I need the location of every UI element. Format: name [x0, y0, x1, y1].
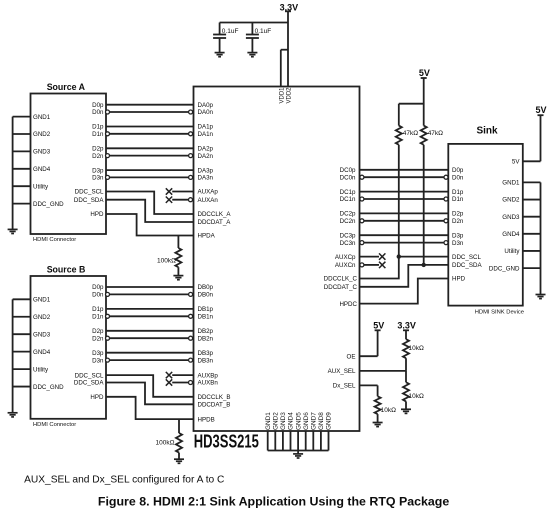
wire D0p-DA0p	[92, 102, 213, 109]
pin label HPDC	[339, 301, 357, 308]
Source B pin HPD label	[90, 394, 104, 401]
ground R7	[373, 423, 383, 427]
svg-text:D2p: D2p	[92, 146, 104, 153]
resistor R3 47k DDC_SCL pullup	[396, 126, 418, 145]
svg-text:AUXCp: AUXCp	[335, 254, 356, 261]
wire D1p-DB1p	[92, 306, 213, 313]
ground R1	[173, 276, 183, 280]
svg-text:D0n: D0n	[92, 292, 104, 299]
wire D0p-DB0p	[92, 284, 213, 291]
capacitor C2 0.1uF	[246, 23, 271, 53]
no-connect AUXCn	[360, 262, 386, 268]
svg-text:DDC_GND: DDC_GND	[33, 384, 64, 391]
wire DDC_SCL B to DDCCLK_B	[106, 375, 194, 397]
pin label HPDB	[198, 416, 215, 423]
svg-text:Figure 8. HDMI 2:1 Sink Appli: Figure 8. HDMI 2:1 Sink Application Usin…	[98, 495, 449, 509]
wire D2n-DA2n	[92, 153, 213, 160]
svg-text:DDC_SDA: DDC_SDA	[452, 262, 482, 269]
svg-text:D2n: D2n	[92, 153, 104, 160]
ground R2	[174, 459, 184, 463]
wire HPDC to sink HPD	[360, 279, 449, 304]
svg-text:D3p: D3p	[452, 232, 464, 239]
wire DC1n-D1n	[340, 196, 464, 203]
connector J3 caption HDMI SINK Device	[475, 310, 524, 316]
Sink pin Utility	[504, 248, 540, 255]
svg-text:GND2: GND2	[273, 412, 280, 430]
Source A pin GND1	[13, 114, 51, 121]
pin label Dx_SEL	[333, 383, 356, 390]
resistor R4 47k DDC_SDA pullup	[421, 126, 443, 145]
wire R4 to junction	[423, 145, 425, 265]
chip pin GND5	[295, 412, 302, 451]
connector J2 Source B body	[31, 276, 107, 419]
svg-text:D1n: D1n	[452, 196, 464, 203]
wire HPD A to HPDA	[106, 214, 194, 236]
wire HPD B to HPDB	[106, 397, 194, 419]
Source B pin GND4	[13, 349, 51, 356]
svg-text:DC2n: DC2n	[340, 218, 356, 225]
svg-text:GND3: GND3	[33, 331, 51, 338]
svg-text:GND5: GND5	[295, 412, 302, 430]
ground Source A	[8, 229, 18, 233]
pin label DDCCLK_A	[198, 211, 232, 218]
pin label DDCDAT_C	[324, 284, 358, 291]
svg-text:GND1: GND1	[33, 114, 51, 121]
svg-text:VDD1: VDD1	[279, 87, 285, 104]
wire D0n-DB0n	[92, 292, 213, 299]
Sink pin 5V	[512, 159, 541, 166]
Source B pin Utility	[13, 366, 49, 373]
wire DDCCLK_C to sink DDC_SCL	[360, 257, 449, 279]
svg-text:GND1: GND1	[502, 180, 520, 187]
svg-text:5V: 5V	[419, 68, 430, 78]
junction DDC_SCL net	[397, 254, 401, 258]
wire D0n-DA0n	[92, 109, 213, 116]
wire DC0n-D0n	[340, 174, 464, 181]
Source B pin DDC_SDA label	[74, 380, 104, 387]
svg-text:DA3n: DA3n	[198, 175, 214, 182]
chip ground bus	[268, 450, 329, 452]
wire 47k tee	[399, 104, 424, 126]
svg-text:DA3p: DA3p	[198, 167, 214, 174]
svg-text:AUXAp: AUXAp	[198, 189, 219, 196]
svg-text:GND2: GND2	[33, 314, 51, 321]
pin label VDD2	[286, 87, 292, 104]
svg-text:HPD: HPD	[452, 276, 466, 283]
wire Dx_SEL	[360, 385, 378, 396]
wire AUX_SEL	[360, 370, 407, 372]
chip pin GND1	[265, 412, 272, 451]
svg-text:D0n: D0n	[452, 174, 464, 181]
Sink pin GND2	[502, 197, 540, 204]
wire 5V vertical	[421, 78, 427, 126]
wire D2p-DA2p	[92, 146, 213, 153]
svg-text:DA0p: DA0p	[198, 102, 214, 109]
svg-text:Sink: Sink	[476, 126, 498, 137]
ground chip	[293, 451, 303, 459]
svg-text:5V: 5V	[373, 320, 384, 330]
svg-text:VDD2: VDD2	[286, 87, 292, 104]
svg-text:Source B: Source B	[47, 265, 86, 275]
svg-text:AUXCn: AUXCn	[335, 262, 356, 269]
wire VDD1 branch	[281, 50, 288, 87]
Source A pin HPD label	[90, 211, 104, 218]
svg-text:HD3SS215: HD3SS215	[194, 432, 259, 452]
junction DDC_SDA net	[422, 263, 426, 267]
svg-text:Source A: Source A	[47, 82, 86, 92]
svg-text:DA2n: DA2n	[198, 153, 214, 160]
svg-text:Utility: Utility	[33, 183, 49, 190]
svg-text:AUX_SEL: AUX_SEL	[328, 368, 356, 375]
Sink pin DDC_GND	[489, 265, 541, 272]
svg-text:GND8: GND8	[318, 412, 325, 430]
Source B pin DDC_GND	[13, 384, 65, 391]
connector J3 Sink title	[476, 126, 498, 137]
pin label VDD1	[279, 87, 285, 104]
wire D3n-DB3n	[92, 357, 213, 364]
svg-text:D3p: D3p	[92, 167, 104, 174]
Source A ground bus	[12, 117, 14, 230]
svg-text:DB0p: DB0p	[198, 284, 214, 291]
svg-text:GND2: GND2	[33, 131, 51, 138]
pin label DDCDAT_B	[198, 402, 231, 409]
svg-text:DB3p: DB3p	[198, 350, 214, 357]
svg-text:DB1n: DB1n	[198, 314, 214, 321]
svg-text:DC1n: DC1n	[340, 196, 356, 203]
connector J2 Source B title	[47, 265, 86, 275]
wire D1n-DA1n	[92, 131, 213, 138]
svg-text:D3n: D3n	[92, 175, 104, 182]
svg-text:D0p: D0p	[452, 167, 464, 174]
svg-text:HDMI Connector: HDMI Connector	[33, 422, 76, 428]
power 5V OE label	[373, 320, 384, 330]
caption note	[24, 475, 224, 486]
svg-text:DA1p: DA1p	[198, 124, 214, 131]
svg-text:DDCCLK_C: DDCCLK_C	[324, 276, 358, 283]
wire DC1p-D1p	[340, 189, 464, 196]
svg-text:100kΩ: 100kΩ	[156, 440, 175, 447]
ground R6	[401, 409, 411, 413]
svg-text:Dx_SEL: Dx_SEL	[333, 383, 356, 390]
svg-text:HDMI Connector: HDMI Connector	[33, 237, 76, 243]
svg-text:DDC_SCL: DDC_SCL	[75, 372, 104, 379]
svg-text:DDCDAT_A: DDCDAT_A	[198, 219, 232, 226]
svg-text:DA1n: DA1n	[198, 131, 214, 138]
svg-text:DB1p: DB1p	[198, 306, 214, 313]
Source A pin GND3	[13, 149, 51, 156]
svg-text:DC1p: DC1p	[340, 189, 356, 196]
svg-text:D1n: D1n	[92, 314, 104, 321]
svg-text:DDCDAT_C: DDCDAT_C	[324, 284, 358, 291]
resistor R7 10k Dx_SEL pulldown	[375, 396, 396, 422]
svg-text:DDC_SCL: DDC_SCL	[75, 189, 104, 196]
svg-text:DC3n: DC3n	[340, 240, 356, 247]
svg-text:DB3n: DB3n	[198, 357, 214, 364]
chip pin GND3	[280, 412, 287, 451]
wire DDC_SDA B to DDCDAT_B	[106, 383, 194, 405]
svg-text:GND3: GND3	[280, 412, 287, 430]
svg-text:DDC_SDA: DDC_SDA	[74, 380, 104, 387]
svg-text:HPDB: HPDB	[198, 416, 215, 423]
svg-text:D0n: D0n	[92, 109, 104, 116]
svg-text:HPDC: HPDC	[339, 301, 357, 308]
svg-text:AUXBn: AUXBn	[198, 380, 219, 387]
svg-text:DC0n: DC0n	[340, 174, 356, 181]
sink pin label HPD	[452, 276, 466, 283]
pin label OE	[347, 353, 356, 360]
svg-text:0.1uF: 0.1uF	[255, 28, 272, 35]
svg-text:D3p: D3p	[92, 350, 104, 357]
svg-text:Utility: Utility	[33, 366, 49, 373]
svg-text:DC0p: DC0p	[340, 167, 356, 174]
connector J1 Source A title	[47, 82, 86, 92]
svg-text:47kΩ: 47kΩ	[403, 130, 418, 137]
wire DC3n-D3n	[340, 240, 464, 247]
wire 3.3V vertical to VDD2	[285, 11, 291, 86]
IC U1 HD3SS215 body	[194, 87, 360, 432]
chip pin GND9	[326, 412, 333, 451]
svg-text:D3n: D3n	[92, 357, 104, 364]
wire DC3p-D3p	[340, 232, 464, 239]
Source B pin GND1	[13, 297, 51, 304]
svg-text:GND3: GND3	[33, 149, 51, 156]
Source B pin DDC_SCL label	[75, 372, 104, 379]
svg-text:DDC_GND: DDC_GND	[33, 201, 64, 208]
Sink pin GND1	[502, 180, 540, 187]
svg-text:DC2p: DC2p	[340, 211, 356, 218]
wire R3 to junction	[398, 145, 400, 257]
chip pin GND4	[288, 412, 295, 451]
Source B pin GND3	[13, 331, 51, 338]
svg-text:GND2: GND2	[502, 197, 520, 204]
Sink pin GND3	[502, 214, 540, 221]
Sink ground bus	[540, 182, 542, 294]
no-connect AUXCp	[360, 253, 386, 259]
svg-text:5V: 5V	[512, 159, 520, 166]
Sink pin GND4	[502, 231, 540, 238]
connector J3 Sink body	[448, 144, 523, 306]
svg-text:D2n: D2n	[452, 218, 464, 225]
Source B pin GND2	[13, 314, 51, 321]
resistor R6 10k AUX_SEL pulldown	[403, 371, 424, 409]
ground for C2	[247, 53, 257, 57]
svg-text:HDMI SINK Device: HDMI SINK Device	[475, 310, 524, 316]
wire D2n-DB2n	[92, 335, 213, 342]
no-connect AUXAp	[166, 188, 219, 195]
wire DC0p-D0p	[340, 167, 464, 174]
svg-text:GND1: GND1	[265, 412, 272, 430]
svg-text:DDCCLK_B: DDCCLK_B	[198, 394, 231, 401]
pin label DDCDAT_A	[198, 219, 232, 226]
resistor R1 100k HPDA pulldown	[157, 236, 181, 276]
pin label DC AUXCp	[335, 254, 356, 261]
svg-text:AUX_SEL and Dx_SEL configured: AUX_SEL and Dx_SEL configured for A to C	[24, 475, 224, 486]
svg-text:GND1: GND1	[33, 297, 51, 304]
svg-text:DDC_GND: DDC_GND	[489, 265, 520, 272]
svg-text:GND4: GND4	[288, 412, 295, 430]
ground Source B	[8, 413, 18, 417]
svg-text:DDC_SCL: DDC_SCL	[452, 254, 481, 261]
svg-text:HPD: HPD	[90, 394, 104, 401]
svg-text:D1p: D1p	[92, 124, 104, 131]
wire D3p-DB3p	[92, 350, 213, 357]
no-connect AUXBn	[166, 379, 219, 386]
svg-text:D0p: D0p	[92, 102, 104, 109]
Source A pin DDC_SDA label	[74, 197, 104, 204]
wire DDCDAT_C to sink DDC_SDA	[360, 265, 449, 287]
wire DDC_SCL A to DDCCLK_A	[106, 192, 194, 215]
svg-text:DC3p: DC3p	[340, 232, 356, 239]
svg-text:AUXAn: AUXAn	[198, 197, 219, 204]
svg-text:10kΩ: 10kΩ	[381, 407, 396, 414]
capacitor C1 0.1uF	[213, 23, 238, 53]
pin label DDCCLK_C	[324, 276, 358, 283]
svg-text:100kΩ: 100kΩ	[157, 258, 176, 265]
svg-text:GND4: GND4	[33, 349, 51, 356]
connector J1 Source A body	[31, 94, 107, 235]
pin label HPDA	[198, 233, 216, 240]
sink pin label DDC_SDA	[452, 262, 482, 269]
power 3.3V AUX label	[397, 320, 416, 330]
svg-text:GND6: GND6	[303, 412, 310, 430]
svg-text:D2p: D2p	[452, 211, 464, 218]
svg-text:DB2p: DB2p	[198, 328, 214, 335]
svg-text:3.3V: 3.3V	[397, 320, 416, 330]
svg-text:OE: OE	[347, 353, 356, 360]
power 5V rail label	[419, 68, 430, 78]
svg-text:GND4: GND4	[33, 166, 51, 173]
pin label AUX_SEL	[328, 368, 356, 375]
sink pin label DDC_SCL	[452, 254, 481, 261]
svg-text:HPDA: HPDA	[198, 233, 216, 240]
no-connect AUXAn	[166, 197, 219, 204]
svg-text:DDC_SDA: DDC_SDA	[74, 197, 104, 204]
wire DC2n-D2n	[340, 218, 464, 225]
svg-text:DA2p: DA2p	[198, 146, 214, 153]
wire D1p-DA1p	[92, 124, 213, 131]
svg-text:DDCDAT_B: DDCDAT_B	[198, 402, 231, 409]
pin label DC AUXCn	[335, 262, 356, 269]
resistor R5 10k AUX_SEL pullup	[403, 330, 424, 371]
resistor R2 100k HPDB pulldown	[156, 419, 182, 459]
ground Sink	[536, 295, 546, 299]
svg-text:D1p: D1p	[452, 189, 464, 196]
svg-text:GND7: GND7	[311, 412, 318, 430]
chip pin GND2	[273, 412, 280, 451]
svg-text:Utility: Utility	[504, 248, 520, 255]
Source A pin DDC_SCL label	[75, 189, 104, 196]
wire decoupling rail	[220, 22, 288, 24]
pin label DDCCLK_B	[198, 394, 231, 401]
svg-text:10kΩ: 10kΩ	[409, 345, 424, 352]
wire D1n-DB1n	[92, 314, 213, 321]
Source A pin Utility	[13, 183, 49, 190]
svg-text:AUXBp: AUXBp	[198, 372, 219, 379]
no-connect AUXBp	[166, 372, 219, 379]
svg-text:GND4: GND4	[502, 231, 520, 238]
svg-text:DB0n: DB0n	[198, 292, 214, 299]
svg-text:DB2n: DB2n	[198, 335, 214, 342]
svg-text:HPD: HPD	[90, 211, 104, 218]
chip pin GND7	[311, 412, 318, 451]
svg-text:D2p: D2p	[92, 328, 104, 335]
IC U1 label HD3SS215	[194, 432, 259, 452]
svg-text:DA0n: DA0n	[198, 109, 214, 116]
wire DC2p-D2p	[340, 211, 464, 218]
connector J1 caption HDMI Connector	[33, 237, 76, 243]
svg-text:47kΩ: 47kΩ	[428, 130, 443, 137]
svg-text:GND9: GND9	[326, 412, 333, 430]
Source A pin GND2	[13, 131, 51, 138]
svg-text:0.1uF: 0.1uF	[222, 28, 239, 35]
power 5V sink label	[535, 105, 546, 115]
svg-text:D2n: D2n	[92, 335, 104, 342]
ground for C1	[215, 53, 225, 57]
chip pin GND6	[303, 412, 310, 451]
wire D3n-DA3n	[92, 175, 213, 182]
svg-text:10kΩ: 10kΩ	[409, 393, 424, 400]
wire OE to 5V	[360, 330, 381, 356]
wire D2p-DB2p	[92, 328, 213, 335]
wire DDC_SDA A to DDCDAT_A	[106, 200, 194, 222]
caption figure title	[98, 495, 449, 509]
connector J2 caption HDMI Connector	[33, 422, 76, 428]
Source A pin GND4	[13, 166, 51, 173]
svg-text:5V: 5V	[535, 105, 546, 115]
svg-text:D3n: D3n	[452, 240, 464, 247]
svg-text:D0p: D0p	[92, 284, 104, 291]
chip pin GND8	[318, 412, 325, 451]
svg-text:D1n: D1n	[92, 131, 104, 138]
Source B ground bus	[12, 299, 14, 413]
svg-text:GND3: GND3	[502, 214, 520, 221]
power 3.3V rail label	[280, 3, 299, 13]
wire D3p-DA3p	[92, 167, 213, 174]
Source A pin DDC_GND	[13, 201, 65, 208]
svg-text:D1p: D1p	[92, 306, 104, 313]
wire sink 5V	[538, 115, 544, 161]
svg-text:DDCCLK_A: DDCCLK_A	[198, 211, 232, 218]
